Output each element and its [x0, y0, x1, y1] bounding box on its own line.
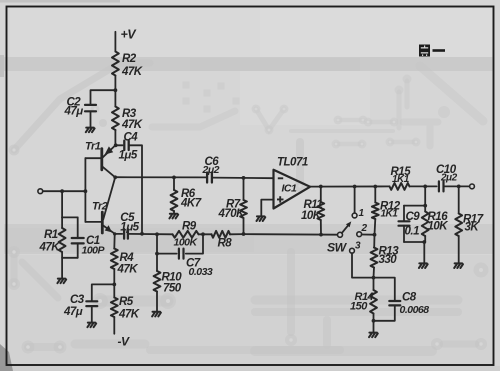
wire C9 bottom lead	[403, 226, 405, 242]
svg-text:47K: 47K	[39, 242, 61, 254]
wire R8 to R7 node	[230, 233, 244, 235]
op-amp plus pin	[277, 196, 284, 202]
wire to C2	[91, 90, 116, 105]
wire C5 to R9 node	[128, 233, 173, 235]
node R11 top	[319, 185, 323, 189]
Tr1 emitter lead	[103, 145, 116, 157]
signal line left	[115, 176, 207, 178]
svg-text:10K: 10K	[301, 210, 322, 222]
node R17 riser	[457, 185, 461, 189]
wire R7 top	[243, 178, 245, 200]
output line right	[444, 185, 470, 187]
resistor R4	[111, 249, 118, 270]
resistor R2	[112, 52, 119, 76]
node R7 top	[242, 176, 246, 180]
resistor R10	[154, 271, 161, 292]
svg-text:150: 150	[350, 301, 368, 313]
transistor Tr2 base bar	[101, 212, 104, 233]
wire plus input	[261, 200, 273, 216]
capacitor C3	[86, 301, 97, 306]
base rail vertical	[84, 158, 86, 222]
svg-text:2μ2: 2μ2	[202, 164, 220, 176]
node C9 R16 top	[423, 204, 427, 208]
capacitor C6	[207, 173, 212, 183]
node C9 R16 riser	[423, 185, 427, 189]
signal line right	[212, 177, 274, 180]
svg-text:C8: C8	[402, 292, 417, 304]
wire emitter node to R4	[113, 234, 115, 249]
svg-text:47K: 47K	[121, 119, 143, 131]
node R6 branch	[172, 176, 176, 180]
node R13 R14 C8	[372, 276, 376, 280]
node C3 branch	[112, 283, 116, 287]
Tr2 base wire	[85, 221, 102, 223]
capacitor C9	[399, 221, 410, 225]
svg-text:+V: +V	[121, 28, 138, 42]
wire SW1 riser	[354, 187, 356, 214]
node R9 left / R10	[155, 232, 159, 236]
svg-text:330: 330	[379, 254, 398, 266]
wire R13 top	[373, 235, 375, 248]
svg-text:100P: 100P	[82, 245, 106, 257]
svg-text:47K: 47K	[117, 264, 139, 276]
ground C2	[86, 128, 95, 133]
svg-text:R2: R2	[122, 53, 137, 65]
svg-text:0.0068: 0.0068	[400, 304, 430, 316]
wire C1 bottom	[77, 243, 79, 257]
svg-text:0.033: 0.033	[189, 266, 213, 278]
ground R6	[169, 214, 178, 219]
wire R12 top	[374, 187, 376, 203]
svg-text:2μ2: 2μ2	[440, 173, 458, 184]
wire R10 to ground	[156, 292, 158, 312]
wire R5 to -V	[113, 317, 115, 334]
Tr1 collector lead	[102, 167, 115, 178]
svg-text:R8: R8	[218, 238, 233, 250]
svg-text:C9: C9	[406, 211, 421, 223]
wire R1C1 bottom link	[62, 257, 78, 259]
svg-text:1μ5: 1μ5	[119, 150, 138, 162]
ground R17	[454, 263, 463, 268]
op-amp minus pin	[278, 177, 283, 179]
svg-text:47μ: 47μ	[64, 106, 84, 118]
capacitor C8	[389, 301, 400, 305]
node R7 bottom	[242, 232, 246, 236]
svg-text:C3: C3	[70, 294, 85, 306]
ground C3	[87, 323, 96, 328]
output terminal	[470, 184, 475, 189]
wire C9 top link	[404, 205, 425, 207]
op-amp U1 triangle	[274, 170, 311, 209]
wire C8 branch top	[374, 278, 395, 300]
wire C4 down to feedback line	[129, 145, 142, 234]
ground R10	[152, 312, 161, 317]
switch contact 2	[357, 232, 362, 237]
svg-text:R4: R4	[120, 252, 135, 264]
wire R6 to ground	[173, 211, 175, 213]
ground op-amp plus	[257, 216, 266, 221]
feedback line right	[244, 233, 338, 236]
resistor R9	[173, 231, 199, 238]
wire R17 top	[458, 186, 460, 213]
wire R16 to ground	[423, 242, 425, 263]
wire R14 bottom	[373, 314, 375, 332]
wire +V rail top	[114, 32, 116, 52]
input terminal	[38, 189, 43, 194]
wire C7 right	[186, 234, 203, 253]
svg-text:TL071: TL071	[277, 157, 308, 169]
node R11 bottom	[319, 233, 323, 237]
wire Tr2 emitter to C5	[115, 233, 123, 235]
ground R1C1	[57, 279, 66, 284]
svg-text:47K: 47K	[118, 309, 140, 321]
svg-text:IC1: IC1	[282, 183, 298, 195]
capacitor C1	[72, 238, 84, 243]
svg-text:10K: 10K	[428, 221, 449, 233]
svg-text:-V: -V	[118, 335, 130, 349]
wire R6 top	[173, 177, 175, 190]
wire C9 top lead	[403, 206, 405, 221]
switch lever arrow	[346, 221, 351, 227]
resistor R16	[422, 212, 429, 237]
output line mid	[410, 185, 437, 187]
svg-text:1K1: 1K1	[381, 209, 399, 220]
wire C3 to ground	[91, 306, 93, 322]
switch contact 3	[350, 248, 355, 253]
wire R1 bottom	[61, 252, 63, 278]
node Tr2 emitter	[113, 232, 116, 235]
wire R13 bottom	[373, 268, 376, 278]
resistor R6	[171, 190, 178, 211]
capacitor C2	[85, 105, 96, 111]
svg-text:1K1: 1K1	[392, 174, 410, 185]
node R12 R13 junction	[373, 233, 377, 237]
node signal junction	[113, 175, 117, 179]
node C7 branch	[155, 252, 159, 256]
svg-text:100K: 100K	[174, 237, 199, 249]
capacitor C7	[179, 249, 184, 259]
resistor R15	[390, 183, 410, 190]
svg-text:Tr1: Tr1	[85, 141, 101, 153]
capacitor C4	[124, 141, 128, 150]
svg-text:R1: R1	[44, 229, 58, 241]
node Tr1 collector	[114, 143, 118, 147]
wire R1 top lead	[61, 217, 63, 228]
resistor R3	[112, 107, 119, 131]
node SW1 riser	[353, 185, 357, 189]
output line left	[310, 185, 390, 187]
node R9 R8 junction	[201, 232, 205, 236]
wire R7 bottom	[243, 218, 245, 234]
node R16 bottom	[422, 240, 426, 244]
Tr1 emitter arrow	[105, 146, 114, 154]
figure mark box	[419, 45, 445, 57]
wire contact 2	[362, 234, 375, 236]
transistor Tr1 base bar	[100, 149, 103, 170]
node R1 branch	[60, 189, 64, 193]
wire R10 top	[156, 234, 158, 271]
wire C9R16 riser	[424, 186, 426, 205]
svg-text:4K7: 4K7	[180, 198, 202, 210]
wire R4 to R5	[113, 269, 115, 298]
input wire	[43, 190, 86, 192]
resistor R7	[240, 200, 247, 218]
wire C8 branch bottom	[374, 305, 395, 320]
wire R16 top lead	[424, 206, 426, 212]
resistor R11	[317, 202, 324, 220]
node C2 branch	[114, 88, 118, 92]
svg-text:SW: SW	[327, 241, 348, 255]
wire R1C1 top link	[62, 216, 78, 218]
node C8 bottom	[372, 319, 376, 323]
resistor R8	[212, 231, 231, 238]
wire R3 to Tr1 node	[114, 130, 116, 145]
wire C9R16 bottom link	[404, 241, 425, 243]
svg-text:470K: 470K	[218, 208, 246, 220]
svg-text:750: 750	[163, 283, 182, 295]
svg-text:47K: 47K	[121, 66, 143, 78]
capacitor C10	[439, 181, 444, 191]
switch pole	[338, 232, 343, 237]
resistor R14	[370, 290, 377, 314]
capacitor C5	[124, 229, 128, 238]
wire R12 bottom	[374, 219, 377, 235]
svg-text:0.1: 0.1	[405, 226, 420, 238]
Tr2 emitter arrow	[105, 225, 112, 232]
switch contact 1	[352, 213, 357, 218]
svg-text:R5: R5	[119, 296, 134, 308]
svg-text:47μ: 47μ	[63, 306, 83, 318]
svg-text:C4: C4	[124, 132, 139, 144]
Tr2 collector lead	[103, 177, 115, 219]
resistor R17	[455, 214, 462, 237]
ground R14	[369, 333, 378, 338]
resistor R5	[111, 298, 118, 318]
wire to C4	[116, 144, 123, 146]
wire R14 top	[373, 278, 375, 290]
wire R2 to R3	[114, 76, 116, 107]
wire R9 to R8	[199, 233, 212, 235]
wire C7 left	[157, 253, 177, 255]
wire C1 top	[77, 217, 79, 238]
resistor R1	[59, 228, 66, 252]
wire R16 bottom lead	[424, 236, 426, 242]
svg-text:2: 2	[361, 223, 368, 234]
node input junction	[84, 189, 88, 193]
ground R16	[419, 263, 428, 268]
svg-text:R9: R9	[182, 221, 197, 233]
wire R11 bottom	[320, 220, 322, 235]
Tr2 emitter lead	[103, 226, 114, 234]
node R12 top	[373, 185, 377, 189]
wire input to R1C1	[61, 191, 63, 217]
Tr1 base wire	[85, 157, 101, 159]
switch lever	[342, 225, 349, 233]
wire to C3	[92, 284, 115, 301]
wire C2 to ground	[90, 111, 92, 126]
node C4 drop	[140, 232, 144, 236]
wire R11 top	[320, 187, 322, 203]
resistor R12	[372, 203, 379, 220]
svg-text:3K: 3K	[465, 222, 480, 234]
wire R17 to ground	[458, 236, 460, 263]
resistor R13	[371, 248, 378, 268]
wire contact 3 down	[352, 253, 374, 278]
